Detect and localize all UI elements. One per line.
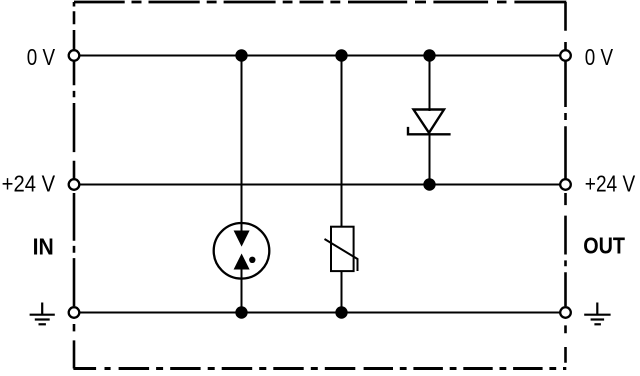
enclosure border bottom (dash-dot) bbox=[73, 367, 566, 370]
wire varistor branch lower (varistor to ground rail) bbox=[341, 271, 343, 313]
wire diode branch upper (0V rail to suppressor diode) bbox=[429, 56, 431, 112]
junction 0V/varistor bbox=[335, 49, 347, 61]
ground symbol left bbox=[30, 303, 55, 325]
svg-text:+24 V: +24 V bbox=[2, 170, 56, 197]
wire GDT branch upper (0V rail to gas discharge tube) bbox=[241, 56, 243, 233]
junction ground/GDT bbox=[235, 306, 247, 318]
enclosure border left (dash-dot) bbox=[73, 2, 76, 369]
svg-text:OUT: OUT bbox=[583, 233, 625, 259]
ground symbol right bbox=[584, 303, 610, 325]
junction ground/varistor bbox=[335, 306, 347, 318]
gas discharge tube (spark gap arrester) bbox=[214, 223, 270, 279]
wire GDT branch lower (gas discharge tube to ground rail) bbox=[241, 269, 243, 313]
junction 0V/diode bbox=[423, 49, 435, 61]
junction +24V/diode bbox=[423, 178, 435, 190]
svg-text:0 V: 0 V bbox=[585, 46, 613, 71]
terminal ground OUT bbox=[560, 307, 571, 318]
wire 0V rail bbox=[79, 55, 561, 57]
terminal +24V IN bbox=[69, 179, 80, 190]
svg-text:+24 V: +24 V bbox=[585, 172, 635, 197]
terminal +24V OUT bbox=[560, 179, 571, 190]
svg-text:IN: IN bbox=[33, 234, 54, 260]
junction 0V/GDT bbox=[235, 49, 247, 61]
wire varistor branch upper (0V rail to varistor) bbox=[341, 56, 343, 228]
enclosure border right (dash-dot) bbox=[564, 2, 567, 363]
wire +24V rail bbox=[79, 184, 561, 186]
varistor (MOV) bbox=[325, 227, 358, 271]
wire ground rail bbox=[79, 312, 561, 314]
wire diode branch lower (suppressor diode to +24V rail) bbox=[429, 134, 431, 185]
suppressor diode (zener/TVS) bbox=[408, 110, 451, 135]
terminal 0V IN bbox=[69, 50, 80, 61]
enclosure border top (dash-dot) bbox=[74, 1, 566, 4]
terminal ground IN bbox=[69, 307, 80, 318]
terminal 0V OUT bbox=[560, 50, 571, 61]
svg-text:0 V: 0 V bbox=[27, 46, 55, 71]
